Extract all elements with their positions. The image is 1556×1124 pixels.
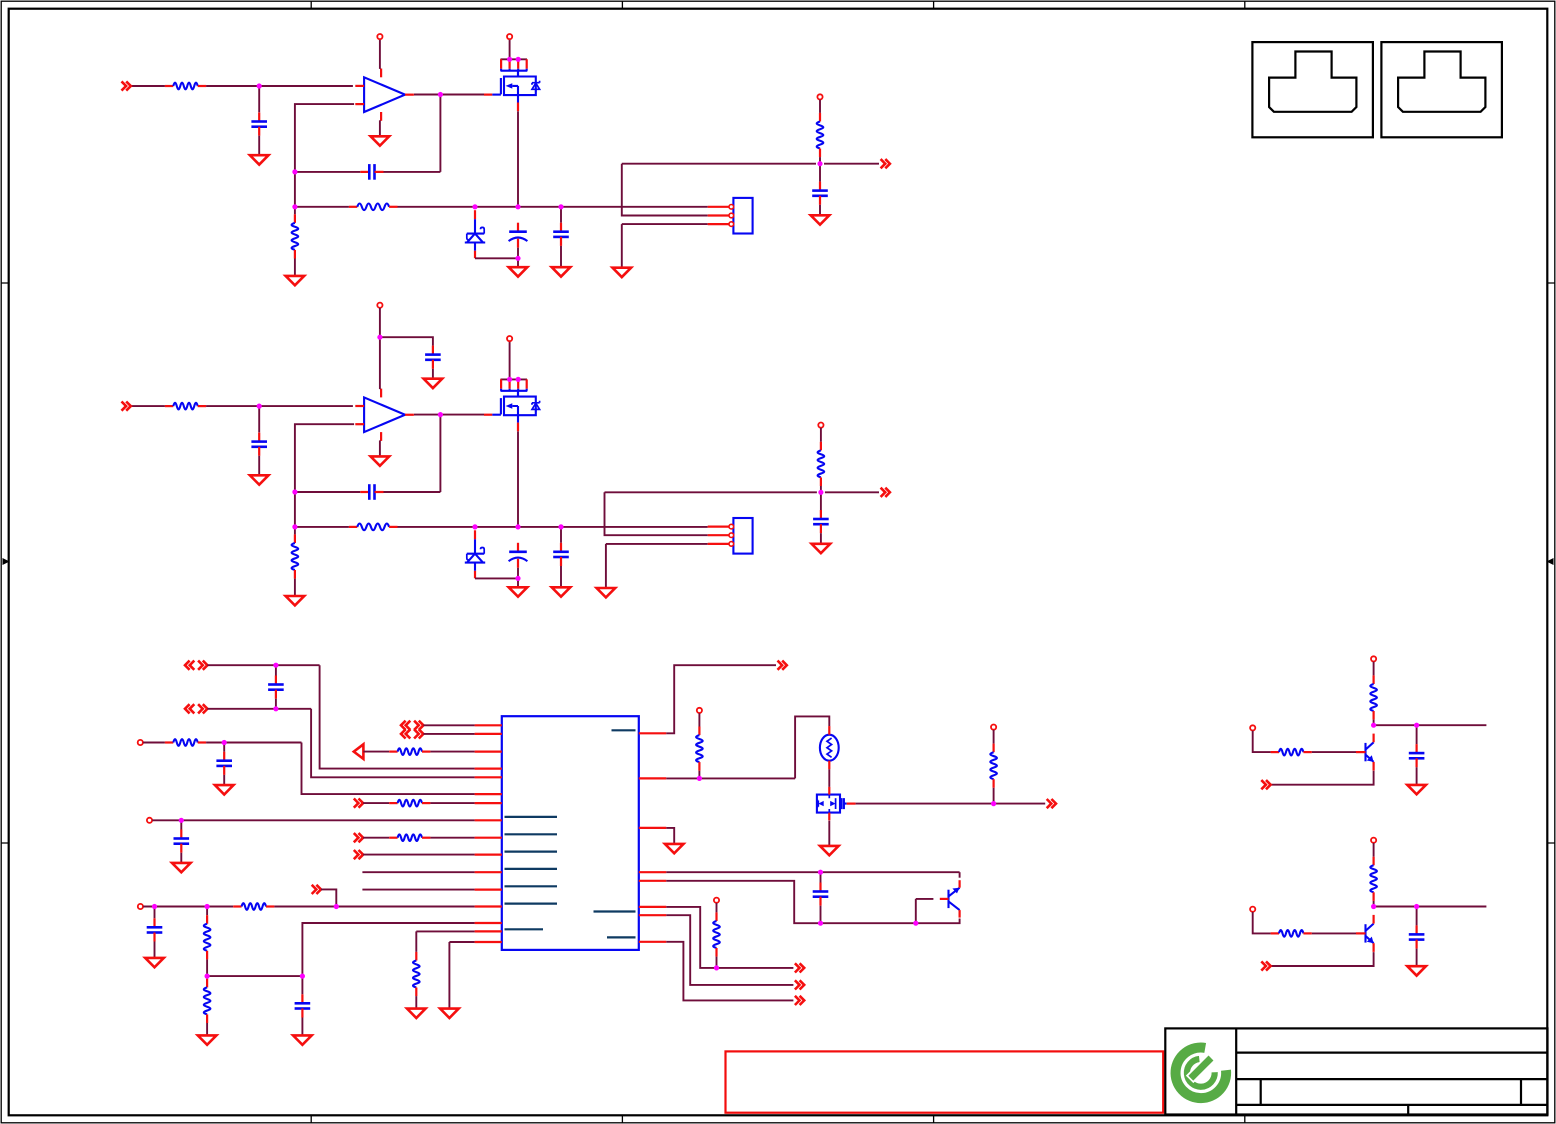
port bbox=[1261, 961, 1270, 970]
ground bbox=[293, 1035, 312, 1044]
wire bbox=[825, 491, 879, 493]
IC pin bbox=[639, 941, 667, 943]
junction bbox=[152, 904, 157, 909]
wire bbox=[207, 708, 311, 710]
IC pin bbox=[639, 914, 667, 916]
wire bbox=[449, 942, 474, 1009]
wire bbox=[206, 85, 353, 87]
IC pin bbox=[475, 750, 502, 752]
power pin bbox=[507, 336, 512, 341]
capacitor bbox=[1409, 744, 1425, 767]
junction bbox=[817, 161, 822, 166]
wire bbox=[302, 923, 474, 976]
wire bbox=[362, 871, 474, 873]
junction bbox=[438, 412, 443, 417]
wire bbox=[622, 224, 708, 267]
resistor bbox=[1370, 857, 1377, 901]
wire bbox=[294, 492, 296, 527]
wire bbox=[295, 424, 354, 492]
op-amp bbox=[355, 69, 414, 121]
wire bbox=[258, 456, 260, 476]
wire bbox=[517, 111, 519, 207]
IC pin bbox=[475, 905, 502, 907]
resistor bbox=[413, 952, 420, 996]
wire bbox=[206, 959, 208, 976]
junction bbox=[515, 576, 520, 581]
wire bbox=[475, 257, 518, 259]
ground bbox=[198, 1035, 217, 1044]
power pin bbox=[147, 818, 152, 823]
wire bbox=[819, 100, 821, 113]
junction bbox=[818, 870, 823, 875]
wire bbox=[517, 248, 519, 267]
wire bbox=[698, 713, 700, 726]
ground bbox=[665, 844, 684, 853]
IC pin-name line bbox=[505, 816, 558, 818]
wire bbox=[430, 802, 474, 804]
junction bbox=[273, 663, 278, 668]
resistor bbox=[165, 83, 206, 90]
wire bbox=[423, 724, 474, 726]
ground bbox=[215, 785, 234, 794]
wire bbox=[131, 85, 165, 87]
wire bbox=[415, 996, 417, 1009]
border centre arrow left bbox=[3, 558, 10, 565]
power pin bbox=[714, 898, 719, 903]
zener diode bbox=[465, 530, 485, 578]
port bbox=[795, 963, 804, 972]
junction bbox=[334, 904, 339, 909]
wire bbox=[379, 120, 381, 136]
wire bbox=[820, 872, 822, 882]
wire bbox=[398, 526, 708, 528]
wire bbox=[820, 486, 822, 492]
capacitor bbox=[553, 223, 569, 246]
jack connector outline bbox=[1252, 42, 1373, 137]
junction bbox=[558, 524, 563, 529]
wire bbox=[1373, 843, 1375, 857]
junction bbox=[292, 204, 297, 209]
junction bbox=[714, 965, 719, 970]
port bbox=[354, 833, 363, 842]
op-amp bbox=[355, 389, 414, 441]
wire bbox=[206, 742, 301, 744]
junction bbox=[377, 335, 382, 340]
wire bbox=[1253, 912, 1271, 933]
connector bbox=[708, 518, 753, 554]
capacitor bbox=[812, 182, 828, 205]
IC pin bbox=[475, 819, 502, 821]
junction bbox=[205, 974, 210, 979]
wire bbox=[1373, 720, 1375, 726]
wire bbox=[206, 976, 208, 979]
ground bbox=[371, 136, 390, 145]
ground bbox=[407, 1009, 426, 1018]
wire bbox=[430, 751, 474, 753]
power pin bbox=[697, 708, 702, 713]
power pin bbox=[817, 94, 822, 99]
port bbox=[795, 996, 804, 1005]
capacitor bbox=[425, 346, 441, 369]
junction bbox=[515, 256, 520, 261]
pnp transistor bbox=[940, 880, 960, 917]
wire bbox=[820, 492, 822, 510]
wire bbox=[258, 86, 260, 112]
wire bbox=[828, 769, 830, 787]
wire bbox=[959, 872, 961, 878]
wire bbox=[560, 246, 562, 267]
IC pin-name line bbox=[505, 928, 544, 930]
wire bbox=[1312, 751, 1356, 753]
resistor bbox=[389, 748, 430, 755]
junction bbox=[273, 706, 278, 711]
power pin bbox=[1371, 838, 1376, 843]
wire bbox=[666, 907, 793, 968]
wire bbox=[993, 730, 995, 744]
junction bbox=[515, 204, 520, 209]
IC pin-name line bbox=[505, 885, 558, 887]
wire bbox=[1373, 901, 1375, 907]
capacitor bbox=[174, 830, 190, 853]
wire bbox=[824, 163, 879, 165]
jack connector outline bbox=[1381, 42, 1502, 137]
resistor bbox=[233, 903, 274, 910]
ground bbox=[440, 1009, 459, 1018]
wire bbox=[143, 906, 233, 908]
wire bbox=[1253, 731, 1271, 752]
junction bbox=[257, 404, 262, 409]
wire bbox=[295, 491, 360, 493]
power pin bbox=[377, 303, 382, 308]
junction bbox=[438, 92, 443, 97]
wire bbox=[321, 889, 336, 906]
capacitor bbox=[251, 433, 267, 456]
power pin bbox=[138, 904, 143, 909]
IC pin bbox=[475, 776, 502, 778]
ground bbox=[1407, 966, 1426, 975]
IC pin bbox=[475, 724, 502, 726]
wire bbox=[414, 414, 440, 416]
resistor bbox=[204, 979, 211, 1023]
wire bbox=[274, 906, 474, 908]
IC pin bbox=[475, 871, 502, 873]
wire bbox=[994, 803, 1046, 805]
port bbox=[122, 402, 131, 411]
resistor bbox=[1271, 749, 1312, 756]
junction bbox=[991, 801, 996, 806]
port bbox=[185, 704, 207, 713]
wire bbox=[302, 743, 475, 795]
wire bbox=[294, 172, 296, 207]
capacitor bbox=[360, 484, 383, 500]
wire bbox=[363, 854, 475, 856]
wire bbox=[207, 975, 302, 977]
wire bbox=[180, 853, 182, 863]
wire bbox=[560, 566, 562, 587]
IC pin-name line bbox=[612, 729, 636, 731]
junction bbox=[205, 904, 210, 909]
ground bbox=[552, 587, 571, 596]
wire bbox=[475, 577, 518, 579]
resistor bbox=[292, 214, 299, 258]
wire bbox=[1374, 724, 1487, 726]
wire bbox=[1374, 906, 1487, 908]
capacitor bbox=[268, 676, 284, 699]
wire bbox=[206, 1023, 208, 1035]
IC pin bbox=[475, 802, 502, 804]
junction bbox=[292, 489, 297, 494]
wire bbox=[666, 828, 674, 844]
wire bbox=[1271, 952, 1374, 966]
wire bbox=[430, 837, 474, 839]
wire bbox=[223, 743, 225, 752]
power pin bbox=[138, 740, 143, 745]
IC pin bbox=[475, 888, 502, 890]
resistor bbox=[817, 113, 824, 157]
npn transistor bbox=[1356, 915, 1374, 952]
ground bbox=[811, 215, 830, 224]
ground bbox=[371, 456, 390, 465]
wire bbox=[820, 428, 822, 442]
wire bbox=[716, 903, 718, 912]
capacitor bbox=[813, 883, 829, 906]
ground bbox=[172, 863, 191, 872]
title block frame bbox=[1165, 1028, 1547, 1114]
wire bbox=[384, 171, 441, 173]
power pin bbox=[1371, 656, 1376, 661]
wire bbox=[795, 716, 829, 778]
jumper bracket bbox=[501, 59, 528, 76]
wire bbox=[294, 207, 296, 215]
ground bbox=[820, 846, 839, 855]
wire bbox=[275, 699, 277, 709]
resistor bbox=[713, 912, 720, 956]
wire bbox=[384, 491, 441, 493]
jumper bracket bbox=[501, 379, 528, 396]
junction bbox=[292, 169, 297, 174]
IC pin bbox=[475, 930, 502, 932]
resistor bbox=[204, 915, 211, 959]
junction bbox=[222, 740, 227, 745]
port bbox=[401, 721, 423, 730]
resistor bbox=[349, 204, 398, 211]
IC pin bbox=[475, 837, 502, 839]
junction bbox=[515, 524, 520, 529]
capacitor bbox=[216, 752, 232, 775]
junction bbox=[1371, 723, 1376, 728]
IC pin-name line bbox=[505, 902, 558, 904]
capacitor bbox=[295, 994, 311, 1017]
wire bbox=[311, 709, 475, 778]
wire bbox=[258, 136, 260, 156]
resistor bbox=[1370, 675, 1377, 719]
wire bbox=[1312, 932, 1356, 934]
capacitor bbox=[1409, 925, 1425, 948]
wire bbox=[294, 579, 296, 596]
IC pin bbox=[475, 941, 502, 943]
wire bbox=[1373, 662, 1375, 676]
wire bbox=[819, 205, 821, 216]
wire bbox=[206, 405, 353, 407]
ground bbox=[286, 276, 305, 285]
ground bbox=[509, 587, 528, 596]
wire bbox=[819, 164, 821, 182]
capacitor bbox=[147, 918, 163, 941]
wire bbox=[207, 664, 319, 666]
IC pin bbox=[639, 827, 667, 829]
port bbox=[354, 744, 364, 759]
IC pin bbox=[639, 777, 667, 779]
wire bbox=[143, 742, 165, 744]
wire bbox=[666, 881, 959, 923]
wire bbox=[362, 889, 474, 891]
wire bbox=[993, 788, 995, 804]
wire bbox=[666, 665, 776, 733]
junction bbox=[913, 921, 918, 926]
wire bbox=[819, 157, 821, 164]
junction bbox=[558, 204, 563, 209]
ground bbox=[509, 267, 528, 276]
wire bbox=[295, 104, 354, 172]
wire bbox=[509, 341, 511, 379]
wire bbox=[379, 39, 381, 69]
junction bbox=[818, 921, 823, 926]
IC pin bbox=[475, 793, 502, 795]
IC pin bbox=[639, 906, 667, 908]
wire bbox=[380, 337, 433, 345]
port bbox=[795, 980, 804, 989]
junction bbox=[697, 776, 702, 781]
wire bbox=[379, 440, 381, 456]
port bbox=[1047, 799, 1056, 808]
junction bbox=[257, 83, 262, 88]
wire bbox=[606, 544, 708, 588]
ground bbox=[286, 596, 305, 605]
wire bbox=[363, 802, 389, 804]
IC pin bbox=[475, 733, 502, 735]
power pin bbox=[1250, 907, 1255, 912]
wire bbox=[916, 899, 934, 923]
wire bbox=[517, 431, 519, 527]
wire bbox=[131, 405, 165, 407]
wire bbox=[258, 406, 260, 432]
IC pin-name line bbox=[594, 910, 636, 912]
capacitor bbox=[360, 164, 383, 180]
junction bbox=[516, 57, 521, 62]
wire bbox=[295, 206, 349, 208]
wire bbox=[716, 957, 718, 968]
wire bbox=[1271, 771, 1374, 785]
junction bbox=[472, 524, 477, 529]
IC pin-name line bbox=[505, 833, 558, 835]
wire bbox=[622, 164, 708, 216]
junction bbox=[1371, 904, 1376, 909]
wire bbox=[666, 871, 959, 873]
wire bbox=[152, 819, 474, 821]
resistor bbox=[389, 800, 430, 807]
resistor bbox=[389, 834, 430, 841]
junction bbox=[292, 524, 297, 529]
capacitor (polarized) bbox=[509, 543, 528, 568]
zener diode bbox=[465, 210, 485, 258]
wire bbox=[605, 492, 708, 535]
p-mosfet bbox=[817, 787, 856, 820]
wire bbox=[398, 206, 708, 208]
IC U1 bbox=[502, 716, 639, 950]
wire bbox=[154, 907, 156, 919]
wire bbox=[622, 163, 816, 165]
wire bbox=[698, 771, 700, 779]
IC pin bbox=[639, 880, 667, 882]
wire bbox=[828, 821, 830, 846]
wire bbox=[301, 1018, 303, 1036]
wire bbox=[379, 308, 381, 389]
wire bbox=[1416, 767, 1418, 785]
wire bbox=[856, 803, 994, 805]
wire bbox=[666, 915, 793, 985]
port bbox=[881, 159, 890, 168]
ground bbox=[552, 267, 571, 276]
IC pin bbox=[475, 767, 502, 769]
capacitor bbox=[251, 113, 267, 136]
wire bbox=[154, 942, 156, 958]
wire bbox=[501, 58, 528, 60]
port bbox=[185, 661, 207, 670]
resistor bbox=[818, 442, 825, 486]
junction bbox=[507, 377, 512, 382]
wire bbox=[666, 777, 795, 779]
border centre arrow right bbox=[1547, 558, 1554, 565]
IC pin bbox=[475, 922, 502, 924]
IC pin bbox=[639, 732, 667, 734]
ground bbox=[424, 379, 443, 388]
wire bbox=[509, 39, 511, 59]
wire bbox=[560, 207, 562, 223]
logo bbox=[1176, 1048, 1227, 1099]
wire bbox=[206, 907, 208, 916]
wire bbox=[414, 94, 440, 96]
n-mosfet bbox=[484, 71, 540, 112]
port bbox=[312, 885, 321, 894]
IC pin-name line bbox=[505, 868, 558, 870]
ground bbox=[145, 958, 164, 967]
junction bbox=[507, 57, 512, 62]
wire bbox=[295, 171, 360, 173]
IC pin bbox=[475, 853, 502, 855]
wire bbox=[666, 942, 793, 1001]
junction bbox=[300, 974, 305, 979]
resistor bbox=[696, 727, 703, 771]
wire bbox=[432, 369, 434, 379]
wire bbox=[223, 775, 225, 785]
wire bbox=[820, 906, 822, 924]
power pin bbox=[507, 34, 512, 39]
port bbox=[778, 661, 787, 670]
ground bbox=[1407, 785, 1426, 794]
wire bbox=[440, 415, 484, 492]
wire bbox=[501, 378, 528, 380]
IC pin bbox=[639, 871, 667, 873]
junction bbox=[472, 204, 477, 209]
capacitor bbox=[553, 543, 569, 566]
port bbox=[1261, 780, 1270, 789]
wire bbox=[605, 491, 817, 493]
wire bbox=[560, 527, 562, 543]
IC pin-name line bbox=[607, 936, 636, 938]
buzzer bbox=[820, 726, 839, 769]
wire bbox=[440, 95, 484, 172]
junction bbox=[516, 377, 521, 382]
